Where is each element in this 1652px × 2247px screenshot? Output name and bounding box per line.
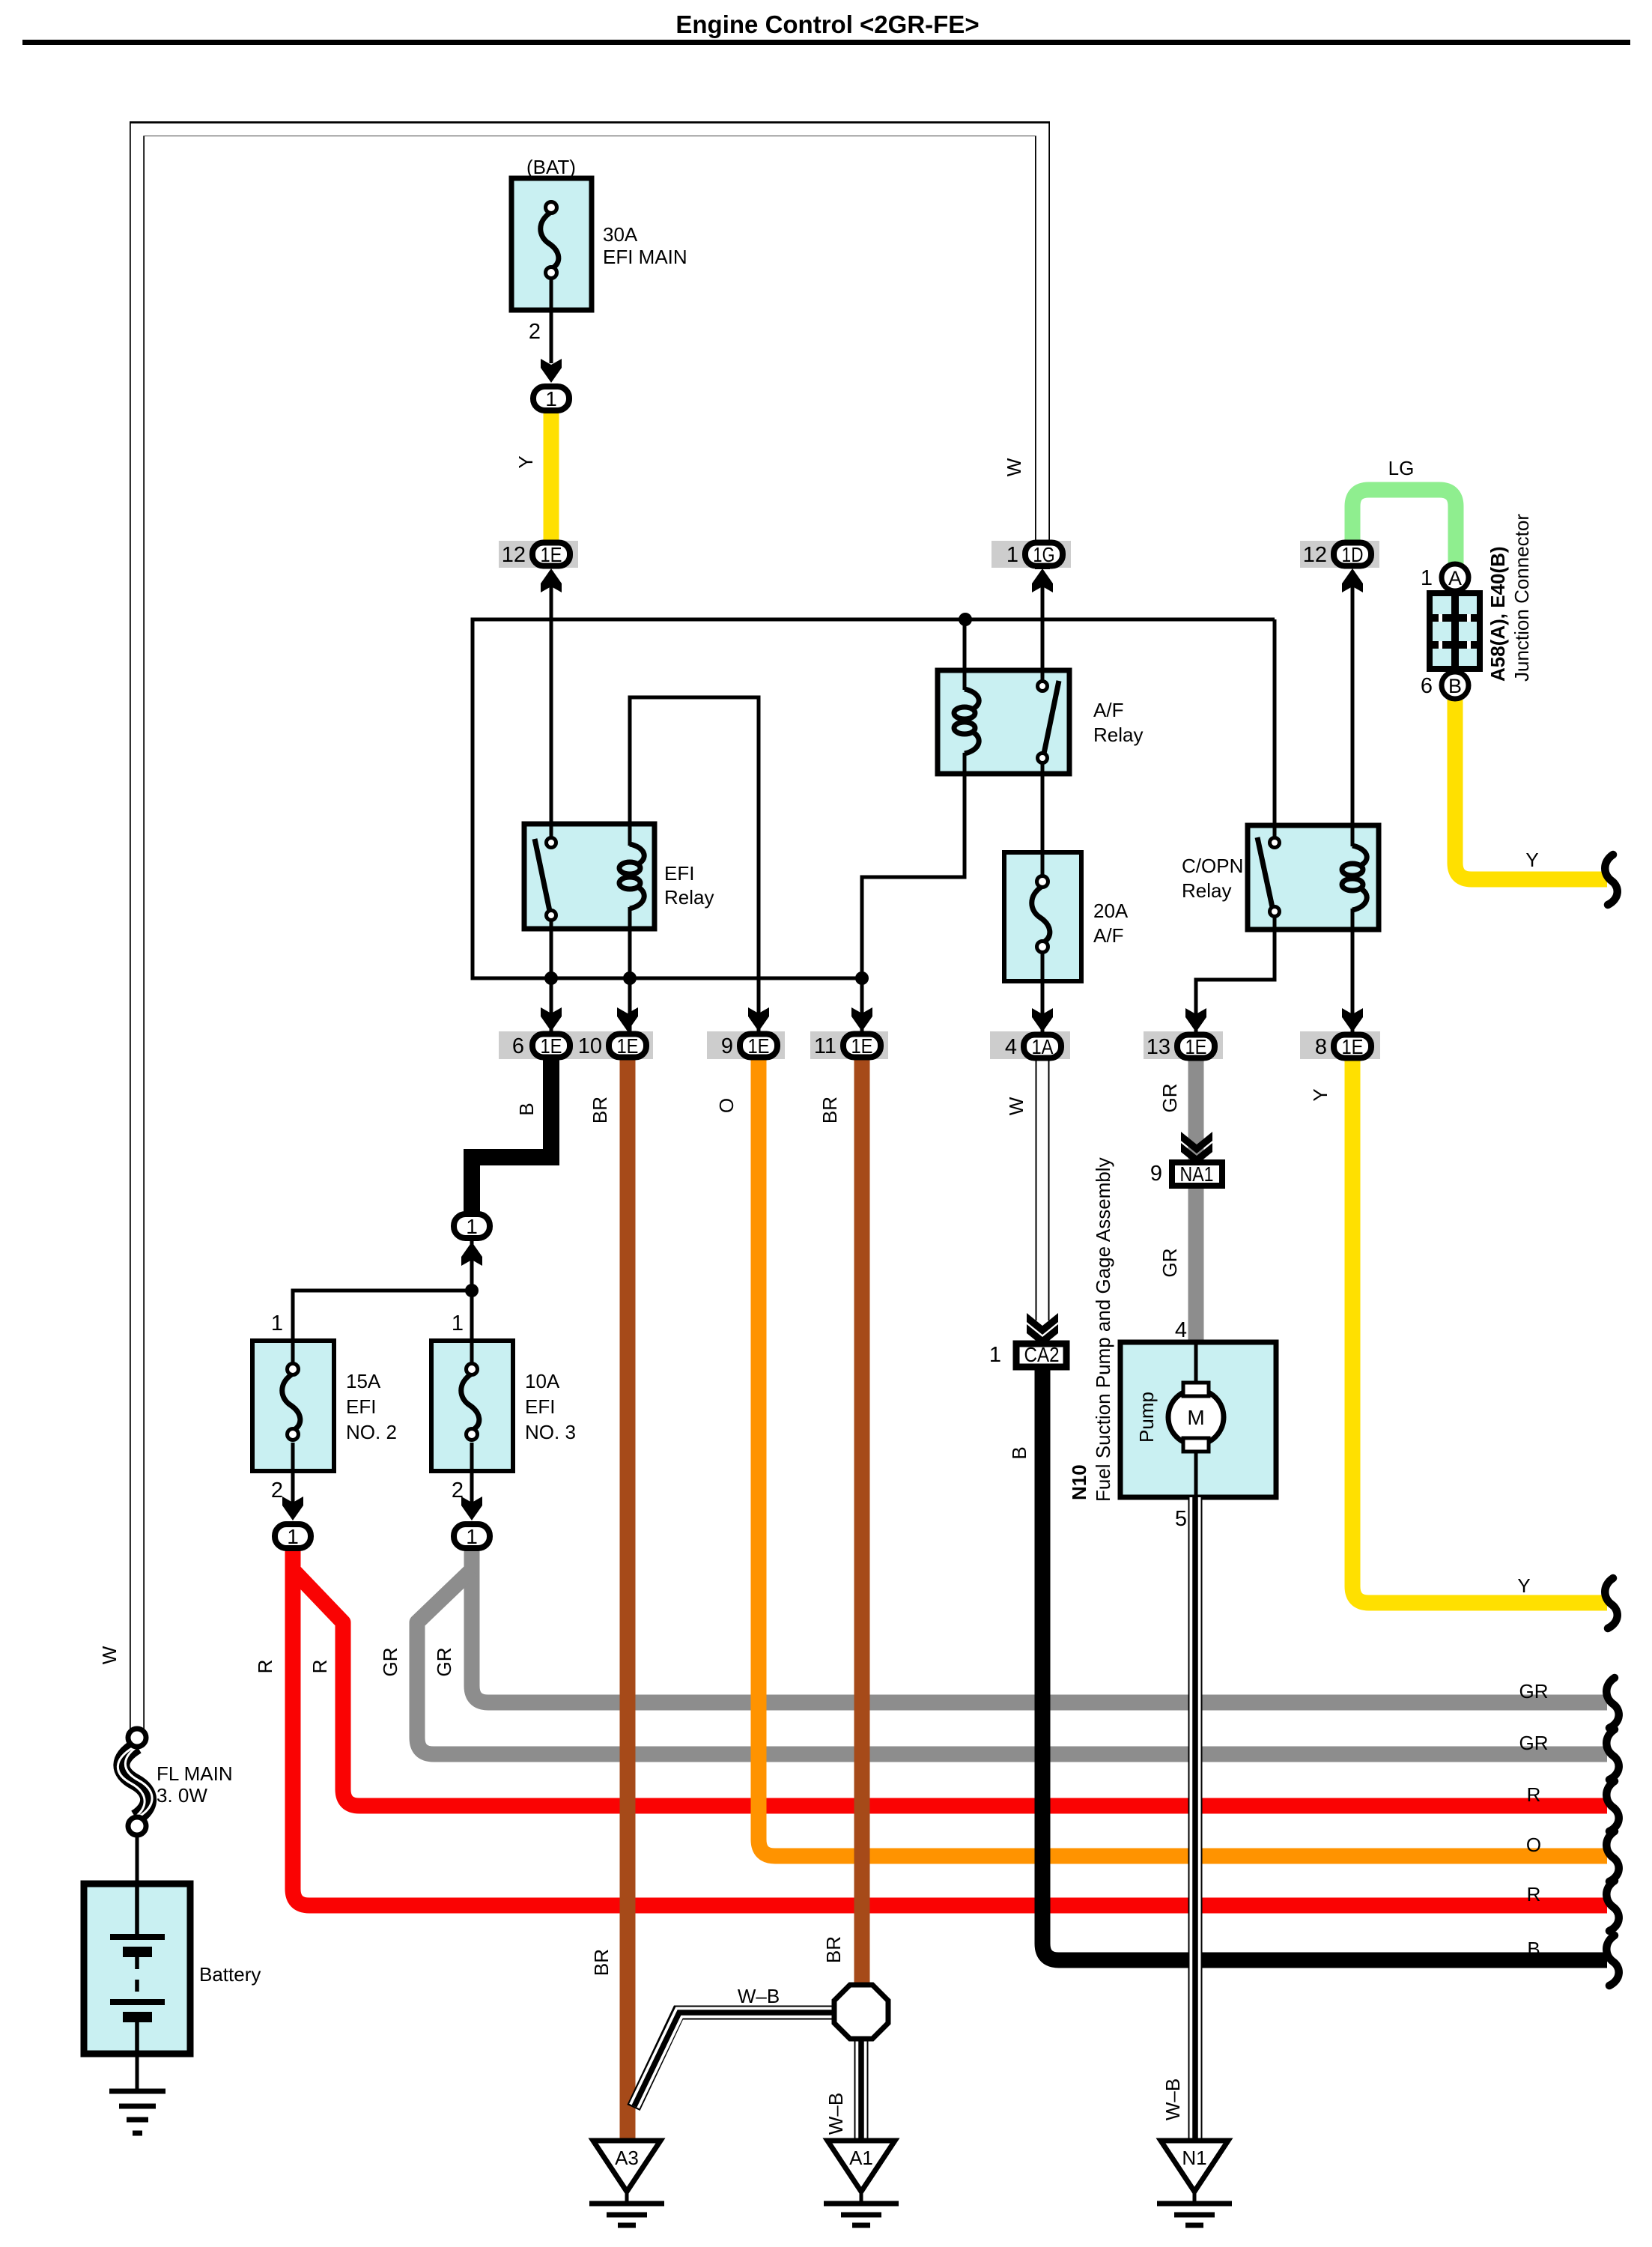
svg-text:O: O (1526, 1834, 1541, 1856)
break Y 8-1E (1605, 1578, 1617, 1628)
wire BR from 10-1E to ground A3 (620, 1049, 636, 2142)
svg-text:W: W (1005, 1097, 1027, 1115)
svg-text:Fuel Suction Pump and Gage Ass: Fuel Suction Pump and Gage Assembly (1092, 1157, 1114, 1502)
svg-text:NO. 3: NO. 3 (525, 1421, 576, 1443)
svg-text:NO. 2: NO. 2 (346, 1421, 397, 1443)
svg-text:C/OPN: C/OPN (1182, 855, 1243, 877)
svg-text:1: 1 (545, 387, 557, 410)
fuse 10A element (461, 1374, 479, 1431)
fuse 15A EFI NO.2 box (252, 1341, 334, 1471)
svg-text:2: 2 (271, 1479, 283, 1502)
battery plates (135, 1884, 139, 1937)
svg-text:BR: BR (819, 1097, 841, 1123)
fuse 15A element (282, 1374, 300, 1431)
svg-text:1: 1 (1421, 566, 1433, 590)
svg-text:N1: N1 (1182, 2147, 1206, 2169)
wire Y from junction connector B (to right break) (1455, 700, 1607, 879)
svg-text:2: 2 (452, 1479, 464, 1502)
connector 4-1A (1024, 1035, 1061, 1058)
wire EFI relay coil top loop to 9-1E (630, 697, 759, 1034)
wire O from 9-1E (to right break) (759, 1049, 1607, 1856)
break GR main (1606, 1678, 1618, 1728)
svg-text:A: A (1448, 567, 1462, 589)
connector band 12-1D (1300, 541, 1379, 568)
svg-text:GR: GR (433, 1648, 455, 1677)
svg-text:EFI: EFI (346, 1395, 376, 1418)
wire EFI relay switch to 6-1E (550, 918, 553, 1034)
wire 12-1D to C/OPN coil (1351, 571, 1355, 846)
wire W-B octagon to A3 joint (634, 2013, 834, 2108)
fuse 10A EFI NO.3 box (431, 1341, 513, 1471)
wire 12-1E to EFI relay switch (550, 571, 553, 840)
wire pump internal top (1194, 1342, 1198, 1386)
wire pump internal bottom (1194, 1449, 1198, 1497)
wire EFI relay coil bottom to 10-1E (628, 907, 632, 1034)
svg-text:R: R (254, 1660, 276, 1674)
svg-text:1G: 1G (1033, 543, 1055, 566)
wire C/OPN coil to 8-1E (1351, 909, 1355, 1034)
wire W-B pump to ground N1 (1188, 1497, 1203, 2142)
relay A/F box (938, 670, 1069, 774)
svg-text:Relay: Relay (1182, 879, 1231, 902)
svg-text:Pump: Pump (1135, 1392, 1158, 1443)
svg-text:12: 12 (1303, 543, 1327, 567)
battery box (84, 1884, 190, 2054)
wire battery to ground (136, 2019, 139, 2091)
svg-text:8: 8 (1315, 1035, 1327, 1059)
arrow into 6-1E (541, 1007, 562, 1031)
wire 10A fuse to oval (470, 1443, 474, 1504)
svg-text:CA2: CA2 (1024, 1343, 1060, 1366)
svg-text:1E: 1E (1342, 1035, 1364, 1058)
svg-text:W: W (98, 1646, 121, 1664)
wire fuse EFI MAIN to connector oval (550, 277, 553, 363)
arrow into 12-1D (1342, 568, 1363, 592)
connector 9-1E (740, 1034, 777, 1058)
junction connector pin B (1442, 672, 1469, 699)
svg-text:15A: 15A (346, 1370, 381, 1392)
svg-text:5: 5 (1175, 1507, 1187, 1531)
wire LG 12-1D to junction connector A (1352, 490, 1456, 565)
svg-text:1D: 1D (1342, 543, 1364, 566)
svg-text:GR: GR (1158, 1249, 1181, 1278)
arrow into 4-1A (1032, 1008, 1053, 1032)
svg-text:R: R (1527, 1883, 1541, 1905)
svg-text:BR: BR (589, 1097, 611, 1123)
relay EFI switch (535, 839, 550, 915)
fuse 30A EFI MAIN element (541, 212, 559, 269)
svg-text:Engine Control <2GR-FE>: Engine Control <2GR-FE> (675, 10, 979, 38)
connector band 1-1G (991, 541, 1071, 568)
svg-text:9: 9 (721, 1034, 733, 1058)
pump N10 box (1120, 1342, 1276, 1497)
svg-text:GR: GR (1519, 1680, 1549, 1702)
svg-text:W–B: W–B (738, 1985, 780, 2007)
wire W-B octagon to ground A1 (854, 2039, 869, 2142)
wire 15A fuse to oval (291, 1443, 295, 1504)
svg-text:O: O (715, 1098, 738, 1113)
svg-text:W–B: W–B (825, 2093, 847, 2135)
svg-text:W: W (1003, 458, 1025, 476)
wire W 4-1A to CA2 (hollow) (1036, 1049, 1050, 1320)
svg-text:B: B (1448, 675, 1462, 697)
connector band 6-1E 10-1E (499, 1031, 653, 1059)
node EFI switch tap (544, 971, 558, 985)
svg-text:(BAT): (BAT) (526, 156, 576, 178)
fuse 30A EFI MAIN box (511, 178, 592, 310)
svg-text:1E: 1E (748, 1034, 770, 1058)
ground A1 (824, 2141, 899, 2225)
connector 1-1G (1025, 543, 1063, 566)
svg-text:EFI: EFI (525, 1395, 555, 1418)
wire C/OPN switch to 13-1E (1196, 915, 1275, 1034)
break GR branch (1606, 1729, 1618, 1780)
connector 11-1E (843, 1034, 881, 1058)
svg-text:1: 1 (287, 1525, 299, 1548)
wire B thick 6-1E to splice (472, 1049, 551, 1215)
wire FL MAIN to battery (136, 1834, 139, 1940)
svg-text:LG: LG (1388, 457, 1415, 479)
svg-text:Junction Connector: Junction Connector (1510, 514, 1533, 682)
svg-text:EFI MAIN: EFI MAIN (603, 246, 687, 268)
break Y junction (1605, 855, 1617, 905)
svg-text:B: B (515, 1103, 538, 1115)
arrow into 12-1E (541, 568, 562, 592)
svg-text:11: 11 (814, 1034, 836, 1058)
wire GR branch (to right break) (417, 1570, 1607, 1754)
svg-text:A1: A1 (849, 2147, 873, 2169)
svg-text:N10: N10 (1068, 1464, 1090, 1500)
svg-text:1: 1 (989, 1343, 1001, 1367)
wire splice oval to fuse bus (470, 1239, 474, 1291)
svg-text:10A: 10A (525, 1370, 560, 1392)
ground N1 (1157, 2141, 1232, 2225)
junction connector box A58/E40 (1430, 593, 1480, 669)
connector 10-1E (609, 1034, 646, 1058)
svg-text:12: 12 (502, 543, 526, 567)
svg-text:B: B (1008, 1446, 1030, 1459)
arrow into 11-1E (851, 1007, 872, 1031)
connector 13-1E (1177, 1035, 1215, 1058)
arrow into oval 1 (10A) (461, 1497, 482, 1520)
break R branch (1606, 1781, 1618, 1831)
svg-text:BR: BR (590, 1949, 613, 1976)
pump motor (1168, 1389, 1224, 1445)
node splice bus end (855, 971, 869, 985)
svg-text:Y: Y (1517, 1574, 1530, 1597)
wire B from CA2 (to right break) (1042, 1368, 1607, 1960)
arrow into 8-1E (1342, 1008, 1363, 1032)
svg-text:Y: Y (1525, 849, 1538, 871)
svg-text:1E: 1E (1185, 1035, 1207, 1058)
connector 6-1E (532, 1034, 570, 1058)
wire GR 13-1E to NA1 (1188, 1049, 1204, 1160)
wire A/F relay coil top (963, 619, 967, 690)
svg-text:1: 1 (452, 1311, 464, 1335)
svg-text:GR: GR (1519, 1732, 1549, 1754)
relay A/F coil (954, 689, 979, 753)
wire A/F relay switch to 20A fuse (1041, 762, 1045, 882)
svg-text:A58(A), E40(B): A58(A), E40(B) (1487, 546, 1509, 682)
wire right rail to C/OPN switch (1273, 619, 1277, 844)
node EFI coil tap (623, 971, 637, 985)
connector band 11-1E (810, 1031, 888, 1059)
wire R branch (to right break) (293, 1570, 1607, 1806)
svg-text:Y: Y (1309, 1088, 1331, 1101)
arrow into 10-1E (617, 1007, 638, 1031)
connector band 13-1E (1144, 1031, 1223, 1059)
svg-text:Battery: Battery (199, 1963, 261, 1986)
fusible link FL MAIN (121, 1746, 148, 1818)
relay EFI box (524, 824, 655, 929)
title rule (22, 40, 1630, 45)
ground battery (109, 2091, 165, 2133)
svg-text:Y: Y (514, 455, 537, 468)
node fuse bus tap (465, 1284, 479, 1297)
node A/F coil tap (959, 613, 972, 626)
svg-text:1E: 1E (851, 1034, 873, 1058)
svg-text:R: R (309, 1660, 331, 1674)
svg-text:Relay: Relay (1093, 724, 1143, 746)
wire R from EFI NO.2 fuse (main, to right break) (293, 1541, 1607, 1905)
svg-text:1: 1 (466, 1215, 478, 1238)
double chevron into CA2 (1027, 1313, 1058, 1335)
arrow into oval 1 (EFI MAIN) (541, 359, 562, 383)
ground A3 (589, 2141, 664, 2225)
wire GR from EFI NO.3 fuse (main, to right break) (472, 1541, 1607, 1702)
svg-text:R: R (1527, 1783, 1541, 1806)
svg-text:1: 1 (271, 1311, 283, 1335)
svg-text:1E: 1E (617, 1034, 639, 1058)
connector 8-1E (1334, 1035, 1371, 1058)
svg-text:A3: A3 (615, 2147, 639, 2169)
wire Y fuse EFI MAIN to 12-1E (544, 403, 559, 548)
connector band 12-1E (499, 541, 578, 568)
relay EFI coil (619, 844, 644, 909)
wire 20A fuse to 4-1A (1041, 951, 1045, 1034)
fuse 20A element (1032, 886, 1050, 943)
arrow into oval 1 (15A) (282, 1497, 303, 1520)
svg-text:4: 4 (1175, 1318, 1187, 1342)
svg-text:NA1: NA1 (1180, 1162, 1214, 1186)
wire A/F relay coil bottom to 11-1E (862, 753, 965, 1034)
connector CA2 (1016, 1344, 1066, 1367)
connector band 4-1A (990, 1031, 1070, 1059)
svg-text:Relay: Relay (664, 886, 714, 909)
svg-text:W–B: W–B (1161, 2078, 1184, 2120)
relay C/OPN switch (1257, 837, 1273, 911)
svg-text:1: 1 (1006, 543, 1018, 567)
octagon W-B joint (834, 1985, 888, 2039)
relay A/F switch (1043, 681, 1059, 757)
svg-text:1E: 1E (541, 1034, 562, 1058)
wire GR NA1 to pump pin 4 (1188, 1188, 1204, 1344)
arrow into 13-1E (1185, 1008, 1206, 1032)
svg-text:GR: GR (379, 1648, 401, 1677)
connector 12-1E (532, 543, 570, 566)
svg-text:13: 13 (1147, 1035, 1170, 1059)
connector NA1 (1172, 1162, 1222, 1186)
splice oval B splice (454, 1214, 490, 1238)
wire bus horizontal + left rail to splice bus (473, 619, 1275, 978)
svg-text:M: M (1187, 1406, 1204, 1429)
splice oval below EFI MAIN fuse (533, 386, 569, 410)
double chevron into NA1 (1181, 1132, 1212, 1153)
svg-text:1: 1 (466, 1525, 478, 1548)
connector band 9-1E (707, 1031, 785, 1059)
svg-text:1A: 1A (1032, 1035, 1054, 1058)
svg-text:A/F: A/F (1093, 924, 1123, 947)
junction connector pin A (1442, 564, 1469, 591)
svg-text:A/F: A/F (1093, 699, 1123, 721)
svg-text:30A: 30A (603, 223, 638, 246)
svg-text:3. 0W: 3. 0W (157, 1784, 207, 1807)
svg-text:20A: 20A (1093, 900, 1129, 922)
wire bus to 10A fuse (470, 1291, 474, 1365)
arrow into splice oval (461, 1242, 482, 1266)
wire W battery to 1-1G (hollow) (137, 129, 1042, 1732)
relay C/OPN coil (1342, 846, 1367, 910)
svg-text:GR: GR (1158, 1084, 1181, 1113)
break O (1606, 1831, 1618, 1881)
wire BR from 11-1E to octagon joint (854, 1049, 870, 1989)
svg-text:10: 10 (578, 1034, 602, 1058)
splice oval below 15A fuse (275, 1524, 311, 1548)
svg-text:B: B (1527, 1938, 1540, 1960)
svg-text:EFI: EFI (664, 862, 694, 885)
svg-text:BR: BR (822, 1936, 845, 1963)
wire A/F relay switch to 1-1G (1041, 571, 1045, 682)
splice oval below 10A fuse (454, 1524, 490, 1548)
svg-text:1E: 1E (541, 543, 562, 566)
svg-text:9: 9 (1150, 1162, 1162, 1186)
arrow into 9-1E (748, 1007, 769, 1031)
arrow into 1-1G (1032, 568, 1053, 592)
svg-text:6: 6 (512, 1034, 524, 1058)
relay C/OPN box (1248, 825, 1379, 930)
connector band 8-1E (1300, 1031, 1380, 1059)
svg-text:6: 6 (1421, 674, 1433, 698)
wire Y from 8-1E (to right break) (1352, 1049, 1607, 1603)
wire bus to 15A fuse (293, 1291, 472, 1365)
svg-text:2: 2 (529, 320, 541, 344)
svg-text:4: 4 (1005, 1035, 1017, 1059)
svg-text:FL MAIN: FL MAIN (157, 1762, 233, 1785)
break B (1606, 1935, 1618, 1986)
fuse 20A A/F box (1004, 852, 1081, 981)
connector 12-1D (1334, 543, 1371, 566)
break R main (1606, 1881, 1618, 1931)
